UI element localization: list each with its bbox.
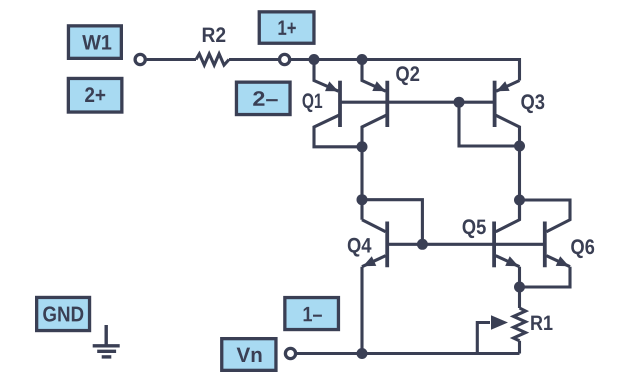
ground	[93, 325, 120, 357]
label box 2+	[68, 78, 122, 112]
Q4 designator label	[348, 238, 372, 257]
transistor Q1	[303, 60, 361, 147]
wire Q3 collector down to Q5 collector	[518, 146, 521, 220]
Q1 designator label	[303, 93, 323, 112]
node dot Q4 base	[417, 239, 428, 250]
wire R2 to 1+ terminal	[229, 58, 280, 61]
resistor R1 (adjustable)	[514, 308, 526, 341]
wire Q3 base tie-down	[459, 102, 520, 146]
node dot Q1/Q2 collectors	[357, 141, 368, 152]
wire Q5/Q6 emitters to R1	[518, 287, 521, 308]
Q3 designator label	[521, 94, 544, 113]
transistor Q6	[520, 200, 595, 287]
terminal circle 1+/2-	[280, 54, 290, 64]
wire Q1/Q2 collectors down to Q4 collector	[360, 147, 363, 220]
node dot Q3 collector	[514, 141, 525, 152]
node dot top rail left	[309, 54, 320, 65]
transistor Q3	[495, 81, 545, 147]
wire base rail Q1-Q2-Q3	[340, 101, 495, 104]
Q6 designator label	[571, 239, 594, 258]
R2 label	[203, 27, 226, 42]
terminal circle Vn/1-	[285, 348, 295, 358]
label box Vn	[222, 339, 276, 371]
label box 1+	[259, 12, 314, 43]
node dot top rail right	[357, 54, 368, 65]
R1 wiper arrow	[477, 323, 490, 354]
wire W1 terminal to R2	[147, 58, 196, 61]
Q2 designator label	[396, 66, 419, 85]
label box GND	[37, 297, 90, 330]
transistor Q5	[463, 200, 520, 287]
node dot Q5/Q6 collectors	[514, 195, 525, 206]
transistor Q4	[348, 220, 387, 354]
node dot Q3 base	[454, 97, 465, 108]
terminal circle W1/2+	[135, 54, 145, 64]
R1 label	[531, 316, 552, 330]
resistor R2	[196, 54, 229, 65]
node dot Q4 collector	[357, 194, 368, 205]
label box 2-	[236, 82, 290, 114]
Q5 designator label	[463, 219, 486, 238]
node dot bottom rail	[357, 348, 368, 359]
wire top rail	[291, 60, 520, 81]
transistor Q2	[362, 60, 419, 147]
wire Q4 diode tie collector-base	[362, 200, 422, 245]
wire base rail Q4-Q5-Q6	[387, 243, 545, 246]
label box W1	[68, 26, 121, 59]
label box 1-	[285, 298, 339, 330]
wire bottom rail from Vn	[296, 352, 519, 355]
node dot R1 top	[514, 282, 525, 293]
